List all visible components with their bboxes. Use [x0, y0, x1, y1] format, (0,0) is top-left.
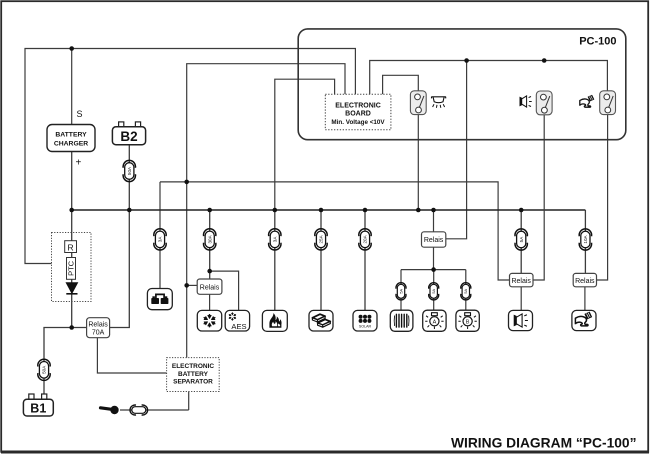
load: fridge compressor (snowflake) icon — [197, 310, 221, 331]
svg-text:Relais: Relais — [511, 278, 531, 285]
svg-text:Relais: Relais — [575, 278, 595, 285]
load: boiler flame icon — [262, 310, 287, 331]
battery B1 — [23, 394, 53, 416]
switch S1 — [410, 91, 426, 115]
svg-text:ELECTRONIC: ELECTRONIC — [335, 103, 381, 110]
junction node dots — [69, 46, 546, 330]
load: water pump icon — [309, 310, 333, 331]
load: battery coupler icon — [147, 289, 172, 310]
svg-text:5A: 5A — [519, 236, 524, 243]
node: AES branch — [207, 269, 212, 274]
node: fuse 20A at bus — [363, 208, 368, 213]
ignition key — [101, 406, 119, 414]
svg-text:50A: 50A — [42, 365, 47, 374]
svg-text:30A: 30A — [207, 234, 212, 243]
wire: board feed via x187 riser (battery separator sense) — [187, 64, 345, 358]
svg-text:ELECTRONIC: ELECTRONIC — [172, 363, 215, 370]
wire: Relais 70A output to separator — [97, 338, 166, 373]
wire: relais link from riser x187 — [187, 284, 198, 286]
wire: fuse 20A drop to solar — [364, 210, 366, 310]
svg-text:Min. Voltage <10V: Min. Voltage <10V — [331, 119, 385, 126]
diode D1 — [66, 283, 77, 294]
load: heating radiator icon — [390, 310, 413, 331]
node: fuse 25A at bus — [319, 208, 324, 213]
node: manifold center — [431, 267, 436, 272]
wire: fuse 3A no2 drop to boiler — [274, 210, 276, 310]
node: B2 at bus — [127, 208, 132, 213]
wire: fuse 30A chain to Relais — [209, 210, 211, 279]
svg-text:SOLAR: SOLAR — [359, 325, 372, 329]
PC-100 enclosure box — [298, 29, 626, 140]
svg-text:50A: 50A — [127, 166, 132, 175]
PTC thermistor — [66, 258, 75, 280]
fuse 20A (solar) — [359, 229, 371, 250]
svg-text:5A: 5A — [399, 289, 403, 294]
wire: AES branch — [210, 271, 239, 311]
wire: bus to R/PTC/diode chain — [71, 210, 73, 328]
R PTC diode dashed module — [52, 233, 92, 302]
battery charger — [47, 125, 95, 152]
svg-text:25A: 25A — [319, 234, 324, 243]
node: diode output — [69, 325, 74, 330]
load: AES fridge icon — [225, 310, 249, 331]
wire: node to B1 fuse branch — [44, 328, 87, 400]
svg-text:3A: 3A — [158, 236, 163, 243]
wire: board output A to switches — [370, 61, 608, 95]
wire: charger to bus — [71, 152, 73, 211]
load: lamp B icon — [456, 310, 479, 331]
wire: lighting relais output manifold — [401, 247, 466, 310]
resistor R — [65, 241, 77, 253]
svg-text:PTC: PTC — [66, 260, 75, 276]
svg-text:3A: 3A — [272, 236, 277, 243]
svg-text:SEPARATOR: SEPARATOR — [173, 379, 213, 386]
wire: board feed from bus at x274.8 — [275, 79, 335, 210]
wire: switch 3 drop to Relais 10A — [597, 114, 608, 280]
wire: bus right drop to fuse 10A and Relais — [584, 210, 586, 273]
relais 70A — [87, 318, 110, 338]
node: fuse 5A at bus — [519, 208, 524, 213]
svg-text:R: R — [68, 242, 74, 252]
svg-text:10A: 10A — [583, 234, 588, 243]
svg-text:70A: 70A — [92, 330, 105, 337]
switch S2 — [536, 91, 552, 115]
wire: Relais 5A to speaker — [520, 287, 522, 311]
svg-text:BATTERY: BATTERY — [178, 371, 209, 378]
node: charger at bus — [69, 208, 74, 213]
node: fuse 30A at bus — [207, 208, 212, 213]
wire: main bus — [72, 209, 586, 211]
inline fuse at key — [130, 405, 148, 415]
wire: battery charger drop — [71, 49, 73, 125]
electronic board U1 — [325, 94, 391, 129]
svg-text:CHARGER: CHARGER — [54, 141, 88, 148]
load: pneumatic horn icon — [572, 310, 596, 330]
svg-text:5A: 5A — [432, 289, 436, 294]
fuse small (heating) — [396, 283, 406, 300]
svg-text:B1: B1 — [30, 402, 46, 416]
wire: distribution line y182 to Relais 5A — [160, 182, 510, 280]
wire: fuse 25A drop to pump — [320, 210, 322, 310]
svg-text:PC-100: PC-100 — [579, 36, 616, 48]
speaker icon top — [520, 96, 532, 107]
svg-text:BOARD: BOARD — [345, 111, 371, 118]
svg-text:BATTERY: BATTERY — [55, 132, 87, 139]
node: riser x187 at relais link — [184, 283, 189, 288]
relais 5A (speaker) — [510, 273, 534, 286]
fuse small (lamp B) — [461, 283, 471, 300]
relais (lighting) — [422, 232, 446, 247]
svg-text:+: + — [76, 158, 82, 169]
svg-text:B2: B2 — [120, 129, 137, 144]
relais (fridge) — [197, 279, 222, 294]
battery B2 — [112, 122, 145, 145]
wire: board output B to switch 1 — [383, 75, 419, 94]
wire: fuse 3A branch drop x160 — [159, 182, 161, 289]
wire: switch 1 to bus — [417, 115, 419, 210]
node: relais riser on wire A — [464, 58, 469, 63]
ceiling light icon — [431, 97, 446, 108]
fuse 10A (horn) — [579, 229, 591, 250]
fuse small (lamp A) — [429, 283, 439, 300]
node: fuse 3A no2 at bus — [273, 208, 278, 213]
fuse 25A (pump) — [315, 229, 327, 250]
wire: relais feed riser x466.6 — [446, 61, 467, 239]
electronic battery separator — [167, 358, 220, 392]
relais 10A (horn) — [573, 273, 596, 286]
horn icon top — [580, 95, 594, 107]
fuse 5A (speaker) — [515, 229, 527, 250]
node: lighting relais at bus — [431, 208, 436, 213]
node: charger tap on top feed — [69, 46, 74, 51]
wire: bus to lighting relais — [433, 210, 435, 232]
wire: fuse 5A chain — [520, 210, 522, 273]
svg-text:WIRING DIAGRAM “PC-100”: WIRING DIAGRAM “PC-100” — [451, 436, 637, 451]
fuse 3A (boiler) — [269, 229, 281, 250]
svg-text:Relais: Relais — [424, 237, 444, 244]
svg-text:B: B — [466, 320, 470, 326]
node: switch2 on wire A — [542, 58, 547, 63]
svg-text:AES: AES — [231, 322, 246, 331]
wire: switch 2 drop to Relais 5A — [533, 115, 544, 280]
svg-text:S: S — [77, 109, 83, 119]
svg-text:A: A — [433, 320, 437, 326]
load: lamp A icon — [423, 310, 446, 331]
fuse 30A — [204, 229, 216, 250]
fuse 3A (fridge feed) — [154, 229, 166, 250]
switch S3 — [600, 91, 616, 115]
wire: Relais 10A to horn — [584, 287, 586, 311]
svg-text:20A: 20A — [363, 234, 368, 243]
wire: main feed from top-left down to PTC box — [25, 49, 355, 264]
wire: ignition key to separator — [120, 392, 189, 411]
fuse 50A (B1) — [38, 359, 50, 380]
node: switch1 at bus — [416, 208, 421, 213]
svg-text:Relais: Relais — [88, 322, 108, 329]
load: exterior speaker icon — [509, 310, 533, 330]
svg-text:Relais: Relais — [200, 284, 220, 291]
svg-text:5A: 5A — [464, 289, 468, 294]
wire: Relais to fridge compressor — [209, 294, 211, 310]
fuse 50A (B2) — [123, 160, 135, 181]
node: riser x187 at y182 — [184, 180, 189, 185]
load: solar regulator icon — [353, 310, 377, 331]
wire: B2 drop through fuse to bus and Relais 70A — [110, 145, 130, 328]
